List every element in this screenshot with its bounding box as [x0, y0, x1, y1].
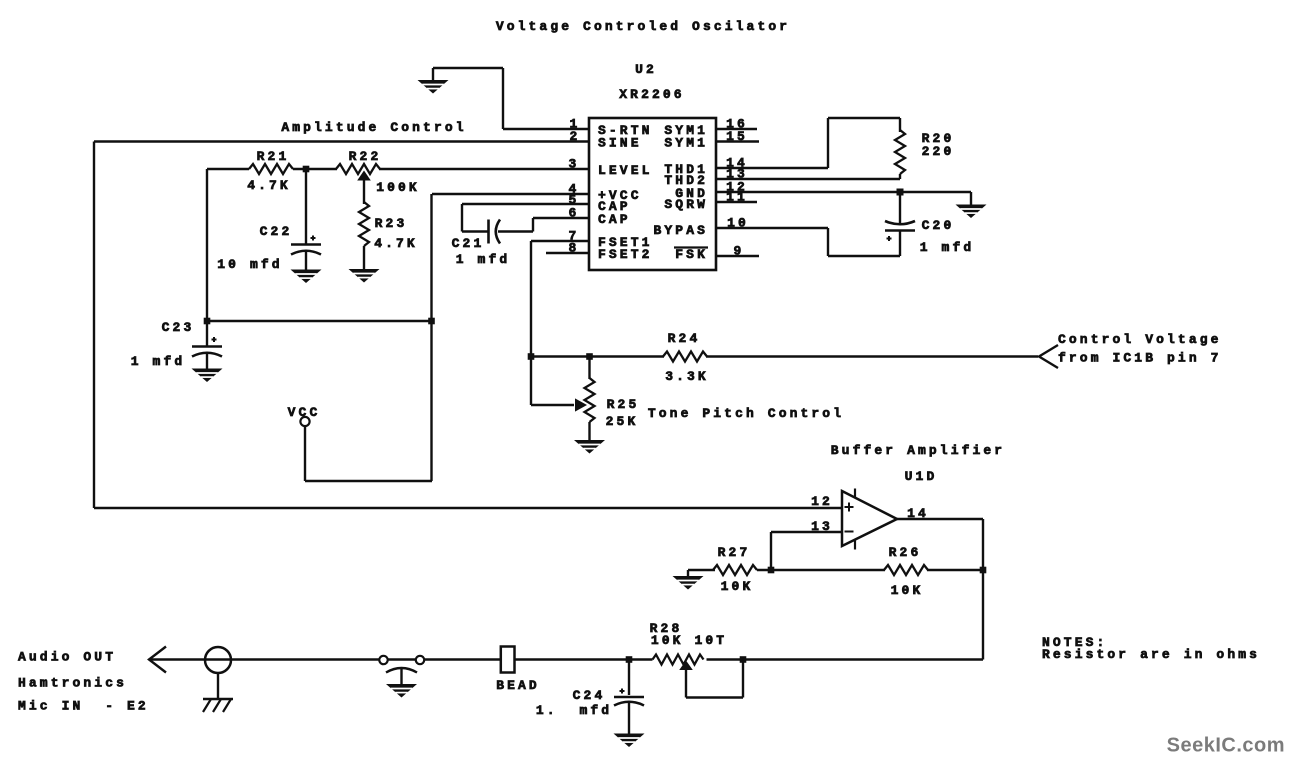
junction node R21/C22: [303, 166, 310, 173]
wire pin6 CAP: [498, 230, 533, 232]
wire R23 to ground: [363, 246, 365, 269]
wire pin9 stub: [716, 255, 759, 257]
svg-text:10K 10T: 10K 10T: [651, 633, 727, 648]
capacitor C23 (electrolytic): [192, 345, 222, 348]
wire R24 row y=356.5: [531, 355, 664, 357]
wire pin7 FSET1 down: [531, 240, 589, 242]
svg-text:R24: R24: [668, 331, 701, 346]
wire pin15 stub: [716, 140, 759, 142]
switch blade arc: [386, 668, 417, 673]
wire R28 wiper loop: [685, 670, 687, 698]
svg-text:BYPAS: BYPAS: [653, 223, 708, 238]
svg-text:SeekIC.com: SeekIC.com: [1167, 735, 1285, 757]
ground (switch): [386, 684, 417, 698]
svg-text:Amplitude Control: Amplitude Control: [281, 120, 466, 135]
junction node pin7/R24: [528, 353, 535, 360]
svg-text:25K: 25K: [606, 414, 639, 429]
ground (R27): [673, 576, 704, 590]
wire left border vertical: [93, 142, 95, 509]
svg-text:10K: 10K: [721, 579, 754, 594]
junction node pin13/R27/R26: [768, 567, 775, 574]
wire VCC source loop: [305, 480, 432, 482]
wire LEVEL row y=169: [207, 168, 249, 170]
svg-text:R27: R27: [718, 545, 751, 560]
svg-text:1 mfd: 1 mfd: [456, 252, 511, 267]
svg-text:XR2206: XR2206: [619, 87, 684, 102]
wire jack to chassis: [217, 673, 219, 699]
wire pin5 CAP: [462, 203, 589, 205]
resistor R27: [713, 565, 757, 575]
svg-text:R22: R22: [349, 149, 382, 164]
svg-text:220: 220: [922, 144, 955, 159]
svg-text:LEVEL: LEVEL: [598, 163, 653, 178]
capacitor C20 (electrolytic): [899, 192, 901, 223]
wire VCC row y=321: [207, 320, 432, 322]
svg-text:10 mfd: 10 mfd: [217, 257, 282, 272]
svg-text:C24: C24: [573, 688, 606, 703]
wire C22 top: [305, 169, 307, 244]
switch terminal circles: [379, 656, 387, 664]
svg-text:Audio OUT: Audio OUT: [18, 650, 116, 665]
junction node VCC riser: [428, 318, 435, 325]
VCC terminal circle: [300, 417, 309, 426]
svg-text:C20: C20: [922, 218, 955, 233]
wire pin10 BYPAS: [716, 227, 828, 229]
ground (pin12 GND): [956, 205, 987, 219]
svg-text:SQRW: SQRW: [664, 197, 708, 212]
ground (C24): [614, 734, 645, 748]
junction node C20 top: [897, 189, 904, 196]
capacitor C22 (electrolytic): [291, 243, 321, 246]
junction node R26/output: [980, 567, 987, 574]
wire op-amp -input pin13: [771, 531, 842, 533]
svg-text:10K: 10K: [891, 583, 924, 598]
wire R20 top: [828, 117, 900, 119]
resistor R21: [249, 164, 293, 174]
svg-text:R25: R25: [607, 397, 640, 412]
junction node R28 wiper/rail: [740, 656, 747, 663]
junction node R25 top: [586, 353, 593, 360]
ground (C23): [192, 369, 223, 383]
wire feedback row y=570: [688, 569, 715, 571]
svg-text:Mic IN - E2: Mic IN - E2: [18, 699, 149, 714]
wire R22 wiper to R23: [363, 181, 365, 205]
wire bottom run to op-amp pin 12: [94, 507, 842, 509]
ground (pin 1 S-RTN): [418, 80, 449, 94]
off-page arrow Audio OUT: [149, 647, 166, 673]
wire pin2 SINE to left border: [94, 140, 589, 142]
resistor R26: [884, 565, 928, 575]
svg-text:100K: 100K: [376, 180, 420, 195]
svg-text:3.3K: 3.3K: [665, 369, 709, 384]
ground (R25): [574, 440, 605, 454]
op-amp U1D: [842, 491, 897, 546]
resistor R24: [663, 352, 707, 362]
svg-text:1 mfd: 1 mfd: [920, 240, 975, 255]
trimmer R28: [653, 655, 704, 665]
wire pin12 GND: [716, 191, 971, 193]
svg-text:4.7K: 4.7K: [374, 236, 418, 251]
ground (R23): [349, 269, 380, 283]
ground (C22): [291, 270, 322, 284]
wire pin4 +VCC: [432, 193, 589, 195]
wire C22 to ground: [305, 252, 307, 270]
ferrite bead FB1: [501, 647, 515, 673]
wire pin8 FSET2 stub: [546, 252, 589, 254]
wire R27 to ground: [687, 570, 689, 576]
resistor R20: [899, 118, 901, 132]
wire op-amp output pin14: [897, 518, 983, 520]
capacitor C21: [487, 220, 490, 244]
wire C23 to ground: [206, 354, 208, 369]
wire R25 wiper: [531, 404, 574, 406]
potentiometer R22: [336, 164, 380, 174]
svg-text:Buffer Amplifier: Buffer Amplifier: [831, 443, 1005, 458]
capacitor C24 (electrolytic): [628, 660, 630, 696]
wire pin14 THD1: [716, 167, 828, 169]
svg-text:SINE: SINE: [598, 136, 642, 151]
svg-text:C21: C21: [452, 236, 485, 251]
svg-text:Tone Pitch Control: Tone Pitch Control: [648, 406, 844, 421]
svg-text:BEAD: BEAD: [496, 678, 540, 693]
wire pin13 THD2: [716, 178, 900, 180]
svg-text:1 mfd: 1 mfd: [131, 354, 186, 369]
svg-text:R26: R26: [889, 545, 922, 560]
off-page arrow Control Voltage: [1039, 345, 1058, 368]
svg-text:U2: U2: [635, 62, 657, 77]
junction node C23: [204, 318, 211, 325]
svg-text:Resistor are in ohms: Resistor are in ohms: [1042, 647, 1260, 662]
svg-text:Hamtronics: Hamtronics: [18, 676, 127, 691]
svg-text:R21: R21: [257, 149, 290, 164]
svg-text:FSET2: FSET2: [598, 247, 653, 262]
wire pin1 S-RTN to ground: [503, 128, 589, 130]
svg-text:VCC: VCC: [288, 405, 321, 420]
svg-text:1. mfd: 1. mfd: [536, 703, 612, 718]
op IC U2 XR2206 box: [589, 118, 716, 270]
wire vertical x=207 (LEVEL to VCC row): [206, 169, 208, 321]
svg-text:U1D: U1D: [905, 469, 938, 484]
svg-text:CAP: CAP: [598, 212, 631, 227]
wire switch to ground: [400, 668, 402, 684]
svg-text:from IC1B pin 7: from IC1B pin 7: [1058, 351, 1222, 366]
svg-text:C23: C23: [162, 320, 195, 335]
svg-text:Voltage Controled Oscilator: Voltage Controled Oscilator: [496, 19, 790, 34]
svg-text:SYM1: SYM1: [664, 136, 708, 151]
svg-text:4.7K: 4.7K: [247, 178, 291, 193]
wire pin11 stub: [716, 201, 757, 203]
potentiometer R25: [588, 357, 590, 380]
wire C23 top: [206, 321, 208, 346]
connector jack circle E2: [205, 647, 231, 673]
wire audio output rail: [149, 658, 501, 660]
junction node C24: [626, 656, 633, 663]
svg-text:C22: C22: [260, 224, 293, 239]
resistor R23: [359, 202, 369, 246]
wire pin16 stub: [716, 128, 757, 130]
svg-text:FSK: FSK: [675, 247, 708, 262]
chassis ground (jack): [203, 698, 233, 701]
svg-text:12: 12: [811, 494, 833, 509]
svg-text:R23: R23: [375, 216, 408, 231]
svg-text:Control Voltage: Control Voltage: [1058, 332, 1222, 347]
